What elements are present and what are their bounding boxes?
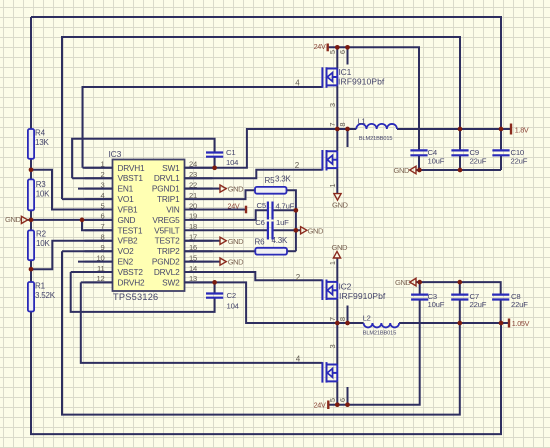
svg-text:24V: 24V <box>314 400 326 409</box>
wire R4 top lead <box>30 17 32 129</box>
node C5/GND rail <box>294 208 299 213</box>
wire C2 top lead <box>214 282 216 293</box>
wire net DRVL1: pin23 to low-side gate <box>185 170 323 179</box>
IC3 right pin stubs <box>185 168 213 283</box>
capacitor C4 <box>410 150 427 155</box>
svg-text:PGND1: PGND1 <box>152 184 180 194</box>
svg-text:VO2: VO2 <box>118 246 135 256</box>
svg-text:GND: GND <box>332 243 348 252</box>
svg-text:VO1: VO1 <box>118 194 135 204</box>
svg-text:6: 6 <box>338 50 347 54</box>
ground at IC2 source <box>333 251 340 258</box>
wire net 1.05V row: L2 to output port <box>399 322 509 324</box>
wire net VO2: pin9 to 1.05V rail <box>62 251 460 414</box>
svg-text:VFB2: VFB2 <box>118 236 139 246</box>
wire net SW1: pin24 up to switch node <box>185 129 357 168</box>
svg-text:22uF: 22uF <box>511 156 528 165</box>
svg-text:1.05V: 1.05V <box>512 319 530 328</box>
svg-text:VIN: VIN <box>166 204 179 214</box>
svg-text:13: 13 <box>189 274 197 283</box>
svg-text:GND: GND <box>394 166 410 175</box>
svg-text:6: 6 <box>338 398 347 402</box>
wire GND row channel 1 <box>416 169 501 171</box>
svg-text:3.52K: 3.52K <box>35 291 56 300</box>
svg-text:GND: GND <box>228 185 244 194</box>
svg-text:7: 7 <box>100 222 104 231</box>
node 1.8V/C9 <box>458 127 463 132</box>
ground at C5/C6 rail <box>301 227 307 234</box>
svg-text:1.8V: 1.8V <box>515 126 529 135</box>
ground at pin17 TEST2 <box>220 237 226 244</box>
wire IC2 drain pins to SW2 node <box>337 299 347 323</box>
capacitor C6 <box>268 222 273 240</box>
transistor Q2 low-side ch1 <box>322 150 337 171</box>
svg-text:DRVH1: DRVH1 <box>118 163 146 173</box>
svg-text:24V: 24V <box>228 202 240 211</box>
node SW1/FET pin8 <box>345 127 350 132</box>
node 24V2/FET pin6 <box>345 402 350 407</box>
svg-text:GND: GND <box>118 215 136 225</box>
svg-text:R2: R2 <box>36 230 47 239</box>
resistor R6 <box>255 248 287 255</box>
svg-text:L2: L2 <box>363 313 371 322</box>
wire net SW2: pin13 to switch node 2 <box>185 282 364 323</box>
svg-text:R4: R4 <box>35 128 46 137</box>
svg-text:11: 11 <box>97 264 104 273</box>
svg-text:24V: 24V <box>314 42 326 51</box>
wire pin22 PGND1 to GND <box>185 188 220 190</box>
svg-text:DRVH2: DRVH2 <box>118 277 146 287</box>
node GND2/C3 <box>417 280 422 285</box>
transistor IC1 IRF9910Pbf high-side ch1 <box>322 67 337 88</box>
svg-text:VFB1: VFB1 <box>118 204 139 214</box>
ground at low-side FET1 source <box>334 194 341 201</box>
svg-text:EN1: EN1 <box>118 184 134 194</box>
svg-text:10uF: 10uF <box>428 300 445 309</box>
inductor L1 <box>356 124 397 129</box>
ground at pin22 PGND1 <box>220 185 226 192</box>
svg-text:13K: 13K <box>35 138 49 147</box>
power port 24V at VIN pin <box>245 206 247 214</box>
svg-text:IRF9910Pbf: IRF9910Pbf <box>339 291 386 301</box>
node SW2/IC2 drain <box>335 321 340 326</box>
node SW2/IC2 pin8 <box>345 321 350 326</box>
svg-text:4.7uF: 4.7uF <box>276 202 295 211</box>
wire pin10 EN2 stub <box>78 261 113 263</box>
wire C4 bottom lead <box>418 155 420 170</box>
svg-text:10: 10 <box>96 253 104 262</box>
svg-text:VBST1: VBST1 <box>118 173 144 183</box>
node GND1/C9 <box>458 168 463 173</box>
svg-text:VREG5: VREG5 <box>152 215 180 225</box>
resistor R2 <box>28 230 34 260</box>
power port 1.8V output <box>510 124 512 135</box>
svg-text:C5: C5 <box>257 201 266 210</box>
wire net TRIP2: pin16 to R6 <box>185 250 256 252</box>
svg-text:8: 8 <box>338 317 347 321</box>
capacitor C10 <box>492 150 509 155</box>
resistor R1 <box>28 282 34 312</box>
svg-text:IC1: IC1 <box>339 67 352 77</box>
wire 24V feed channel 2 <box>328 300 419 405</box>
transistor IC2 IRF9910Pbf ch2 <box>322 280 337 301</box>
capacitor C7 <box>451 295 468 300</box>
svg-text:TEST2: TEST2 <box>155 236 180 246</box>
ground at pin15 PGND2 <box>220 258 226 265</box>
wire R5 right lead to GND rail <box>287 190 296 251</box>
svg-text:V5FILT: V5FILT <box>154 225 180 235</box>
svg-text:3: 3 <box>328 103 337 107</box>
node GND2/C7 <box>457 280 462 285</box>
svg-text:2: 2 <box>100 170 104 179</box>
node C6/GND rail <box>294 228 299 233</box>
svg-text:TRIP2: TRIP2 <box>157 246 180 256</box>
transistor Q4 low-side ch2 <box>322 362 337 383</box>
svg-text:14: 14 <box>189 264 197 273</box>
svg-text:3: 3 <box>328 344 337 348</box>
svg-text:6: 6 <box>100 212 104 221</box>
svg-text:1: 1 <box>328 261 337 265</box>
svg-text:GND: GND <box>5 215 21 224</box>
capacitor C1 <box>206 153 223 157</box>
svg-text:EN2: EN2 <box>118 257 134 267</box>
wire low-side FET1 source to GND <box>336 168 338 193</box>
wire net TRIP1: pin21 to R5 <box>213 190 256 199</box>
wire C9 leads <box>459 129 461 170</box>
wire IC1 drain pins down to SW node <box>337 85 347 151</box>
svg-text:104: 104 <box>227 302 240 311</box>
svg-text:IC3: IC3 <box>109 149 122 159</box>
svg-text:C1: C1 <box>226 148 235 157</box>
svg-text:9: 9 <box>100 243 104 252</box>
svg-text:18: 18 <box>189 222 197 231</box>
wire pin15 PGND2 to GND <box>185 261 220 263</box>
svg-text:1uF: 1uF <box>276 218 289 227</box>
wire net DRVL2: pin14 to IC2 gate <box>185 272 323 280</box>
svg-text:22uF: 22uF <box>470 300 487 309</box>
wire R4-R3 link <box>30 159 32 180</box>
svg-text:R3: R3 <box>36 180 47 189</box>
wire net VBST2: pin11 to C2 <box>71 272 215 312</box>
wire C8 bottom lead <box>500 300 502 324</box>
wire net VREG5: pin19 to C5 <box>213 210 268 220</box>
wire net VFB2: divider tap to pin8 <box>31 241 113 269</box>
svg-text:PGND2: PGND2 <box>152 257 180 267</box>
node 1.05V/C8 <box>499 321 504 326</box>
node C2/SW2 <box>212 280 217 285</box>
wire pin17 TEST2 to GND <box>185 240 220 242</box>
capacitor C2 <box>206 294 223 298</box>
wire R3-R2 link <box>30 210 32 230</box>
svg-text:R5: R5 <box>265 176 276 185</box>
node 1.05V/C7 <box>457 321 462 326</box>
wire C5 right lead <box>273 209 296 211</box>
power port 1.05V output <box>508 319 510 328</box>
svg-text:10K: 10K <box>36 239 50 248</box>
svg-text:15: 15 <box>189 253 197 262</box>
svg-text:24: 24 <box>189 160 197 169</box>
wire C10 leads <box>500 129 502 170</box>
capacitor C5 <box>268 202 273 220</box>
op-amp U1 : controller IC3 TPS53126 body <box>113 160 185 292</box>
svg-text:SW1: SW1 <box>162 163 180 173</box>
node GND1/C4 <box>417 168 422 173</box>
svg-text:C2: C2 <box>227 291 236 300</box>
capacitor C8 <box>492 295 509 300</box>
svg-text:VBST2: VBST2 <box>118 267 144 277</box>
svg-text:3.3K: 3.3K <box>275 174 292 183</box>
svg-text:BLM21BB015: BLM21BB015 <box>359 136 393 142</box>
svg-text:4.3K: 4.3K <box>272 236 289 245</box>
svg-text:DRVL2: DRVL2 <box>154 267 180 277</box>
resistor R4 <box>28 129 34 159</box>
wire net FB1: R4 top sense line to 1.8V output <box>31 17 501 129</box>
svg-text:1: 1 <box>100 160 104 169</box>
wire net VIN: pin20 to 24V port <box>213 209 247 211</box>
svg-text:GND: GND <box>228 237 244 246</box>
svg-text:TRIP1: TRIP1 <box>157 194 180 204</box>
svg-text:R1: R1 <box>35 282 46 291</box>
svg-text:SW2: SW2 <box>162 277 180 287</box>
svg-text:3: 3 <box>100 180 104 189</box>
svg-text:DRVL1: DRVL1 <box>154 173 180 183</box>
node pin6/pin7 GND tee <box>80 218 85 223</box>
IC3 left pin stubs <box>85 168 113 283</box>
wire net VFB1: divider tap to pin5 <box>31 170 113 210</box>
svg-text:10K: 10K <box>36 190 50 199</box>
svg-text:4: 4 <box>100 191 104 200</box>
wire net 1.8V row: L1 to output port <box>397 128 511 130</box>
svg-text:22: 22 <box>189 180 197 189</box>
wire GND row channel 2 <box>416 282 501 295</box>
svg-text:BLM21BB015: BLM21BB015 <box>363 331 397 337</box>
node R2/R1 tap <box>29 267 34 272</box>
wire R6 right lead <box>287 250 296 252</box>
svg-text:16: 16 <box>189 243 197 252</box>
svg-text:7: 7 <box>328 122 337 126</box>
wire net DRVH2: pin12 to low FET2 gate <box>81 282 323 363</box>
node SW1/FET pins <box>335 127 340 132</box>
svg-text:21: 21 <box>189 191 197 200</box>
svg-text:104: 104 <box>226 158 239 167</box>
wire R2-R1 link <box>30 260 32 282</box>
svg-text:GND: GND <box>308 226 324 235</box>
wire C6 right lead and GND stub <box>273 229 301 231</box>
svg-text:TPS53126: TPS53126 <box>113 292 158 302</box>
resistor R5 <box>255 187 287 194</box>
svg-text:19: 19 <box>189 212 197 221</box>
svg-text:22uF: 22uF <box>470 156 487 165</box>
node R4/R3 tap <box>29 167 34 172</box>
node 24V/IC1 pin5 <box>335 45 340 50</box>
svg-text:8: 8 <box>338 122 347 126</box>
wire net GND left: to pin6 <box>28 219 113 221</box>
svg-text:GND: GND <box>395 278 411 287</box>
svg-text:17: 17 <box>189 233 197 242</box>
wire net VBST1: pin2 to C1 <box>72 139 215 179</box>
svg-text:5: 5 <box>100 201 104 210</box>
wire low FET2 drain pins <box>337 323 347 405</box>
wire IC2 source pin to GND arrow <box>336 258 338 282</box>
svg-text:12: 12 <box>96 274 104 283</box>
svg-text:GND: GND <box>228 258 244 267</box>
wire 24V feed channel 1 <box>328 47 419 150</box>
node 24V2/FET pins <box>335 402 340 407</box>
svg-text:22uF: 22uF <box>511 300 528 309</box>
svg-text:5: 5 <box>328 50 337 54</box>
svg-text:R6: R6 <box>255 238 266 247</box>
resistor R3 <box>28 179 34 210</box>
svg-text:C6: C6 <box>255 218 264 227</box>
wire net V5FILT: pin18 to C6 <box>213 229 268 231</box>
wire pin3 EN1 stub <box>78 188 113 190</box>
power port 24V channel 2 <box>327 401 329 410</box>
svg-text:TEST1: TEST1 <box>118 225 143 235</box>
wire net DRVH1: pin1 to IC1 gate <box>83 87 323 168</box>
svg-text:20: 20 <box>189 201 197 210</box>
svg-text:7: 7 <box>328 317 337 321</box>
wire C3 top lead <box>419 282 421 295</box>
svg-text:23: 23 <box>189 170 197 179</box>
capacitor C3 <box>411 295 428 300</box>
svg-text:IRF9910Pbf: IRF9910Pbf <box>338 77 385 87</box>
svg-text:GND: GND <box>332 200 348 209</box>
node C1/SW1 <box>212 165 217 170</box>
wire GND jog to pin7 TEST1 <box>82 220 113 230</box>
wire C7 leads <box>459 282 461 323</box>
inductor L2 <box>364 323 400 327</box>
wire C1 bottom lead to SW1 <box>214 157 216 168</box>
power port 24V channel 1 <box>327 44 329 52</box>
svg-text:8: 8 <box>100 233 104 242</box>
svg-text:10uF: 10uF <box>428 156 445 165</box>
capacitor C9 <box>451 150 468 155</box>
svg-text:1: 1 <box>328 183 337 187</box>
node 24V/IC1 pin6 <box>345 45 350 50</box>
wire IC1 source pins from 24V rail <box>337 47 347 68</box>
node 1.8V/C10 <box>499 127 504 132</box>
svg-text:L1: L1 <box>358 116 366 125</box>
node GND/R3/R2 <box>29 218 34 223</box>
wire net FB2: R1 bottom to 1.05V rail <box>31 312 501 435</box>
wire net VO1: pin4 to 1.8V rail <box>62 37 460 199</box>
